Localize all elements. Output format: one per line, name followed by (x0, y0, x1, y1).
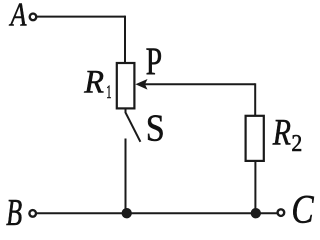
svg-text:P: P (146, 39, 163, 83)
svg-text:1: 1 (106, 82, 111, 103)
svg-text:R: R (83, 64, 104, 100)
bottom wire B to C (36, 212, 278, 214)
terminal A (30, 14, 37, 21)
svg-text:2: 2 (291, 130, 302, 156)
resistor R2 (246, 116, 264, 161)
wire R1 to switch contact (125, 108, 127, 113)
terminal B (29, 210, 36, 217)
svg-text:B: B (6, 192, 22, 227)
switch S blade (126, 113, 141, 142)
wire switch to bottom junction (125, 139, 127, 214)
junction (switch branch) (122, 208, 132, 218)
svg-text:C: C (291, 188, 314, 227)
svg-text:A: A (9, 0, 27, 33)
resistor R1 (rheostat body) (117, 63, 135, 108)
wiper arrow wire (145, 83, 256, 85)
wire R2 to bottom junction (254, 161, 256, 213)
svg-text:S: S (146, 107, 165, 149)
wire corner down to R2 (254, 83, 256, 116)
junction (R2 branch) (251, 208, 261, 218)
terminal C (278, 209, 285, 216)
wire A to corner (37, 16, 126, 18)
wiper arrowhead (135, 79, 147, 90)
svg-text:R: R (272, 113, 291, 154)
wire corner down to R1 (124, 16, 126, 63)
